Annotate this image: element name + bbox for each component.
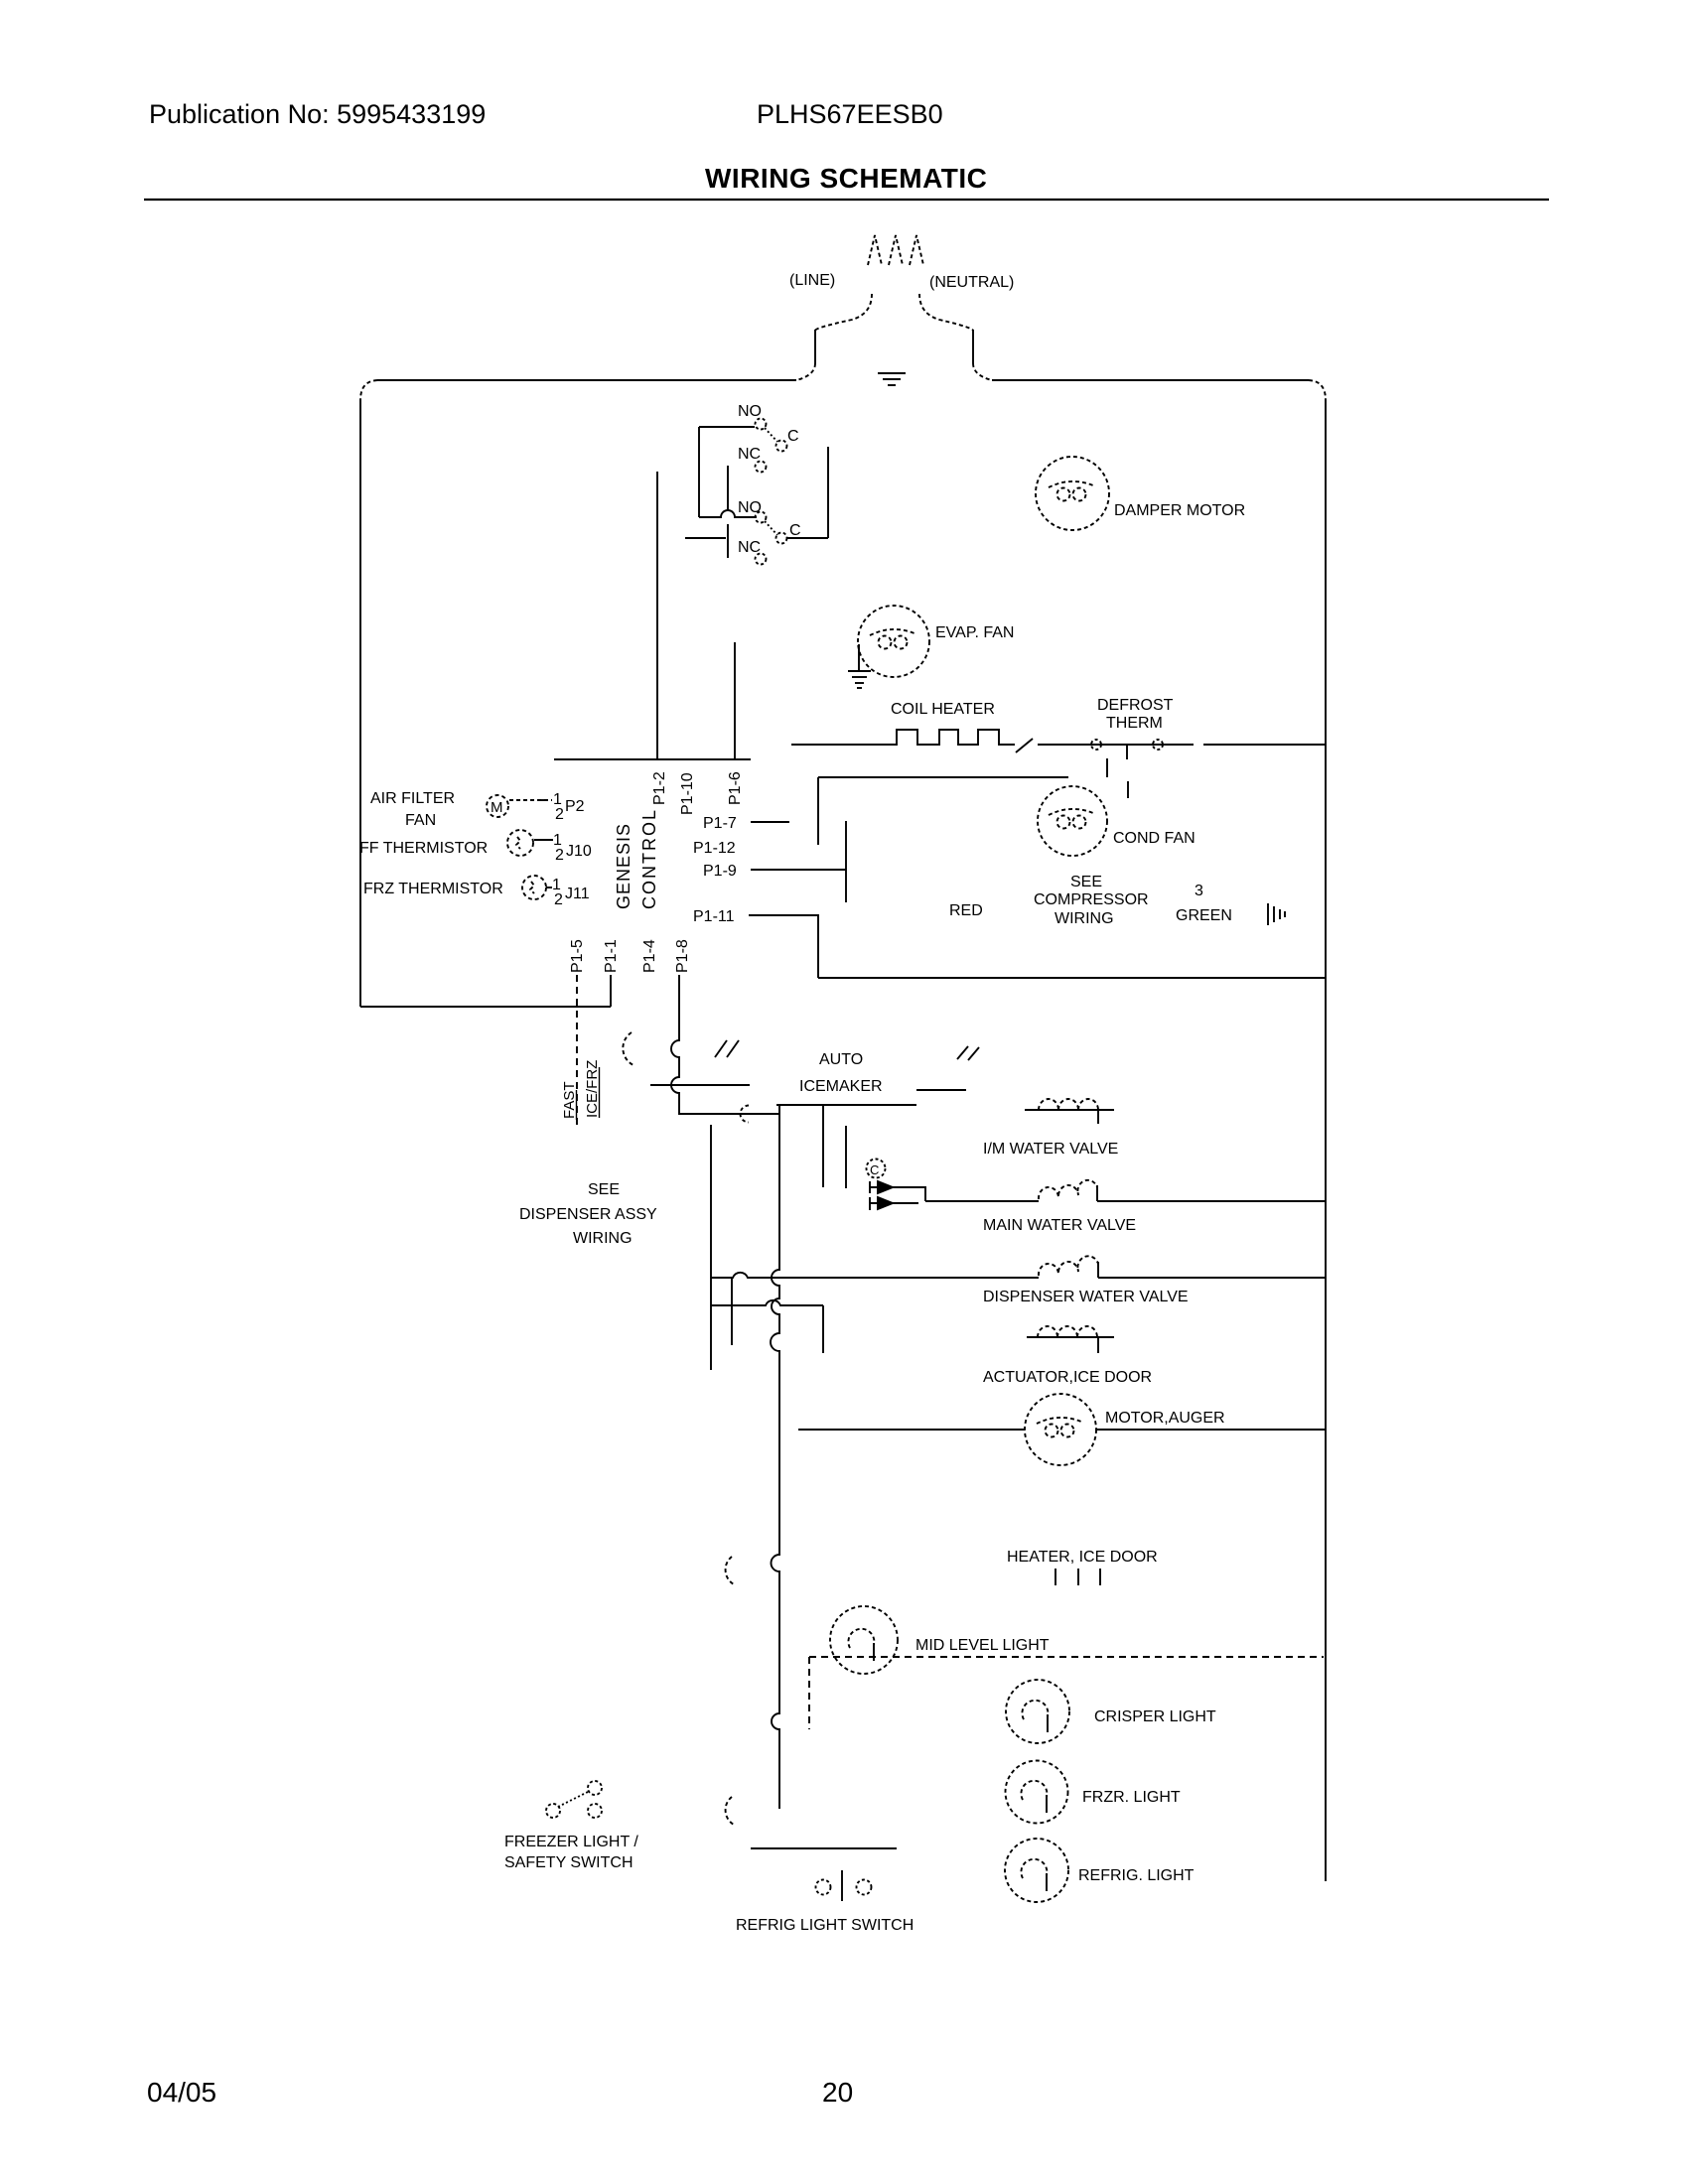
- svg-text:P1-2: P1-2: [651, 771, 668, 805]
- svg-text:RED: RED: [949, 902, 983, 919]
- svg-text:MOTOR,AUGER: MOTOR,AUGER: [1105, 1410, 1225, 1427]
- svg-text:20: 20: [822, 2077, 853, 2108]
- svg-text:Publication No: 5995433199: Publication No: 5995433199: [149, 99, 486, 129]
- svg-text:REFRIG. LIGHT: REFRIG. LIGHT: [1078, 1867, 1195, 1884]
- svg-text:PLHS67EESB0: PLHS67EESB0: [757, 99, 943, 129]
- svg-text:J10: J10: [566, 843, 592, 860]
- svg-text:ACTUATOR,ICE DOOR: ACTUATOR,ICE DOOR: [983, 1369, 1152, 1386]
- svg-text:2: 2: [554, 891, 563, 908]
- svg-text:DISPENSER ASSY: DISPENSER ASSY: [519, 1206, 657, 1223]
- svg-text:P1-4: P1-4: [641, 939, 658, 973]
- svg-text:P2: P2: [565, 798, 585, 815]
- svg-text:SAFETY SWITCH: SAFETY SWITCH: [504, 1854, 633, 1871]
- svg-text:FF THERMISTOR: FF THERMISTOR: [359, 840, 488, 857]
- svg-text:P1-1: P1-1: [603, 939, 620, 973]
- svg-text:FAN: FAN: [405, 812, 436, 829]
- svg-text:DISPENSER WATER VALVE: DISPENSER WATER VALVE: [983, 1289, 1189, 1305]
- svg-text:SEE: SEE: [588, 1181, 620, 1198]
- svg-text:COIL HEATER: COIL HEATER: [891, 701, 995, 718]
- svg-text:MAIN WATER VALVE: MAIN WATER VALVE: [983, 1217, 1136, 1234]
- svg-text:AIR FILTER: AIR FILTER: [370, 790, 455, 807]
- svg-text:NO: NO: [738, 499, 762, 516]
- svg-text:J11: J11: [565, 886, 590, 902]
- svg-text:WIRING: WIRING: [1055, 910, 1114, 927]
- svg-text:AUTO: AUTO: [819, 1051, 863, 1068]
- svg-text:COND FAN: COND FAN: [1113, 830, 1196, 847]
- svg-text:C: C: [787, 428, 799, 445]
- svg-text:P1-8: P1-8: [674, 939, 691, 973]
- svg-text:FAST: FAST: [561, 1081, 578, 1119]
- svg-text:COMPRESSOR: COMPRESSOR: [1034, 891, 1149, 908]
- svg-text:GREEN: GREEN: [1176, 907, 1232, 924]
- svg-text:I/M WATER VALVE: I/M WATER VALVE: [983, 1141, 1118, 1158]
- svg-text:(LINE): (LINE): [789, 272, 835, 289]
- svg-text:2: 2: [555, 847, 564, 864]
- svg-text:C: C: [789, 522, 801, 539]
- svg-text:NO: NO: [738, 403, 762, 420]
- svg-text:FRZ THERMISTOR: FRZ THERMISTOR: [363, 881, 503, 897]
- svg-text:3: 3: [1195, 883, 1203, 899]
- svg-text:NC: NC: [738, 446, 761, 463]
- svg-text:GENESIS: GENESIS: [614, 823, 633, 909]
- svg-text:FREEZER LIGHT /: FREEZER LIGHT /: [504, 1834, 638, 1850]
- svg-text:WIRING: WIRING: [573, 1230, 633, 1247]
- svg-text:P1-11: P1-11: [693, 908, 735, 925]
- svg-text:P1-10: P1-10: [679, 772, 696, 815]
- svg-text:04/05: 04/05: [147, 2077, 216, 2108]
- svg-text:P1-7: P1-7: [703, 815, 737, 832]
- svg-text:THERM: THERM: [1106, 715, 1163, 732]
- svg-text:CONTROL: CONTROL: [639, 808, 659, 909]
- svg-text:NC: NC: [738, 539, 761, 556]
- svg-text:REFRIG LIGHT SWITCH: REFRIG LIGHT SWITCH: [736, 1917, 914, 1934]
- svg-text:C: C: [870, 1162, 879, 1177]
- svg-text:2: 2: [555, 806, 564, 823]
- svg-text:P1-12: P1-12: [693, 840, 736, 857]
- svg-text:DEFROST: DEFROST: [1097, 697, 1174, 714]
- svg-text:WIRING SCHEMATIC: WIRING SCHEMATIC: [705, 163, 987, 194]
- svg-text:P1-5: P1-5: [569, 939, 586, 973]
- svg-text:ICEMAKER: ICEMAKER: [799, 1078, 883, 1095]
- svg-text:HEATER, ICE DOOR: HEATER, ICE DOOR: [1007, 1549, 1158, 1566]
- svg-text:ICE/FRZ: ICE/FRZ: [584, 1060, 601, 1118]
- svg-text:MID LEVEL LIGHT: MID LEVEL LIGHT: [915, 1637, 1050, 1654]
- svg-text:CRISPER LIGHT: CRISPER LIGHT: [1094, 1708, 1216, 1725]
- svg-text:EVAP. FAN: EVAP. FAN: [935, 624, 1014, 641]
- svg-text:P1-9: P1-9: [703, 863, 737, 880]
- svg-text:SEE: SEE: [1070, 874, 1102, 890]
- svg-text:(NEUTRAL): (NEUTRAL): [929, 274, 1014, 291]
- svg-text:P1-6: P1-6: [727, 771, 744, 805]
- svg-text:M: M: [491, 799, 503, 816]
- svg-text:FRZR. LIGHT: FRZR. LIGHT: [1082, 1789, 1181, 1806]
- svg-text:DAMPER MOTOR: DAMPER MOTOR: [1114, 502, 1245, 519]
